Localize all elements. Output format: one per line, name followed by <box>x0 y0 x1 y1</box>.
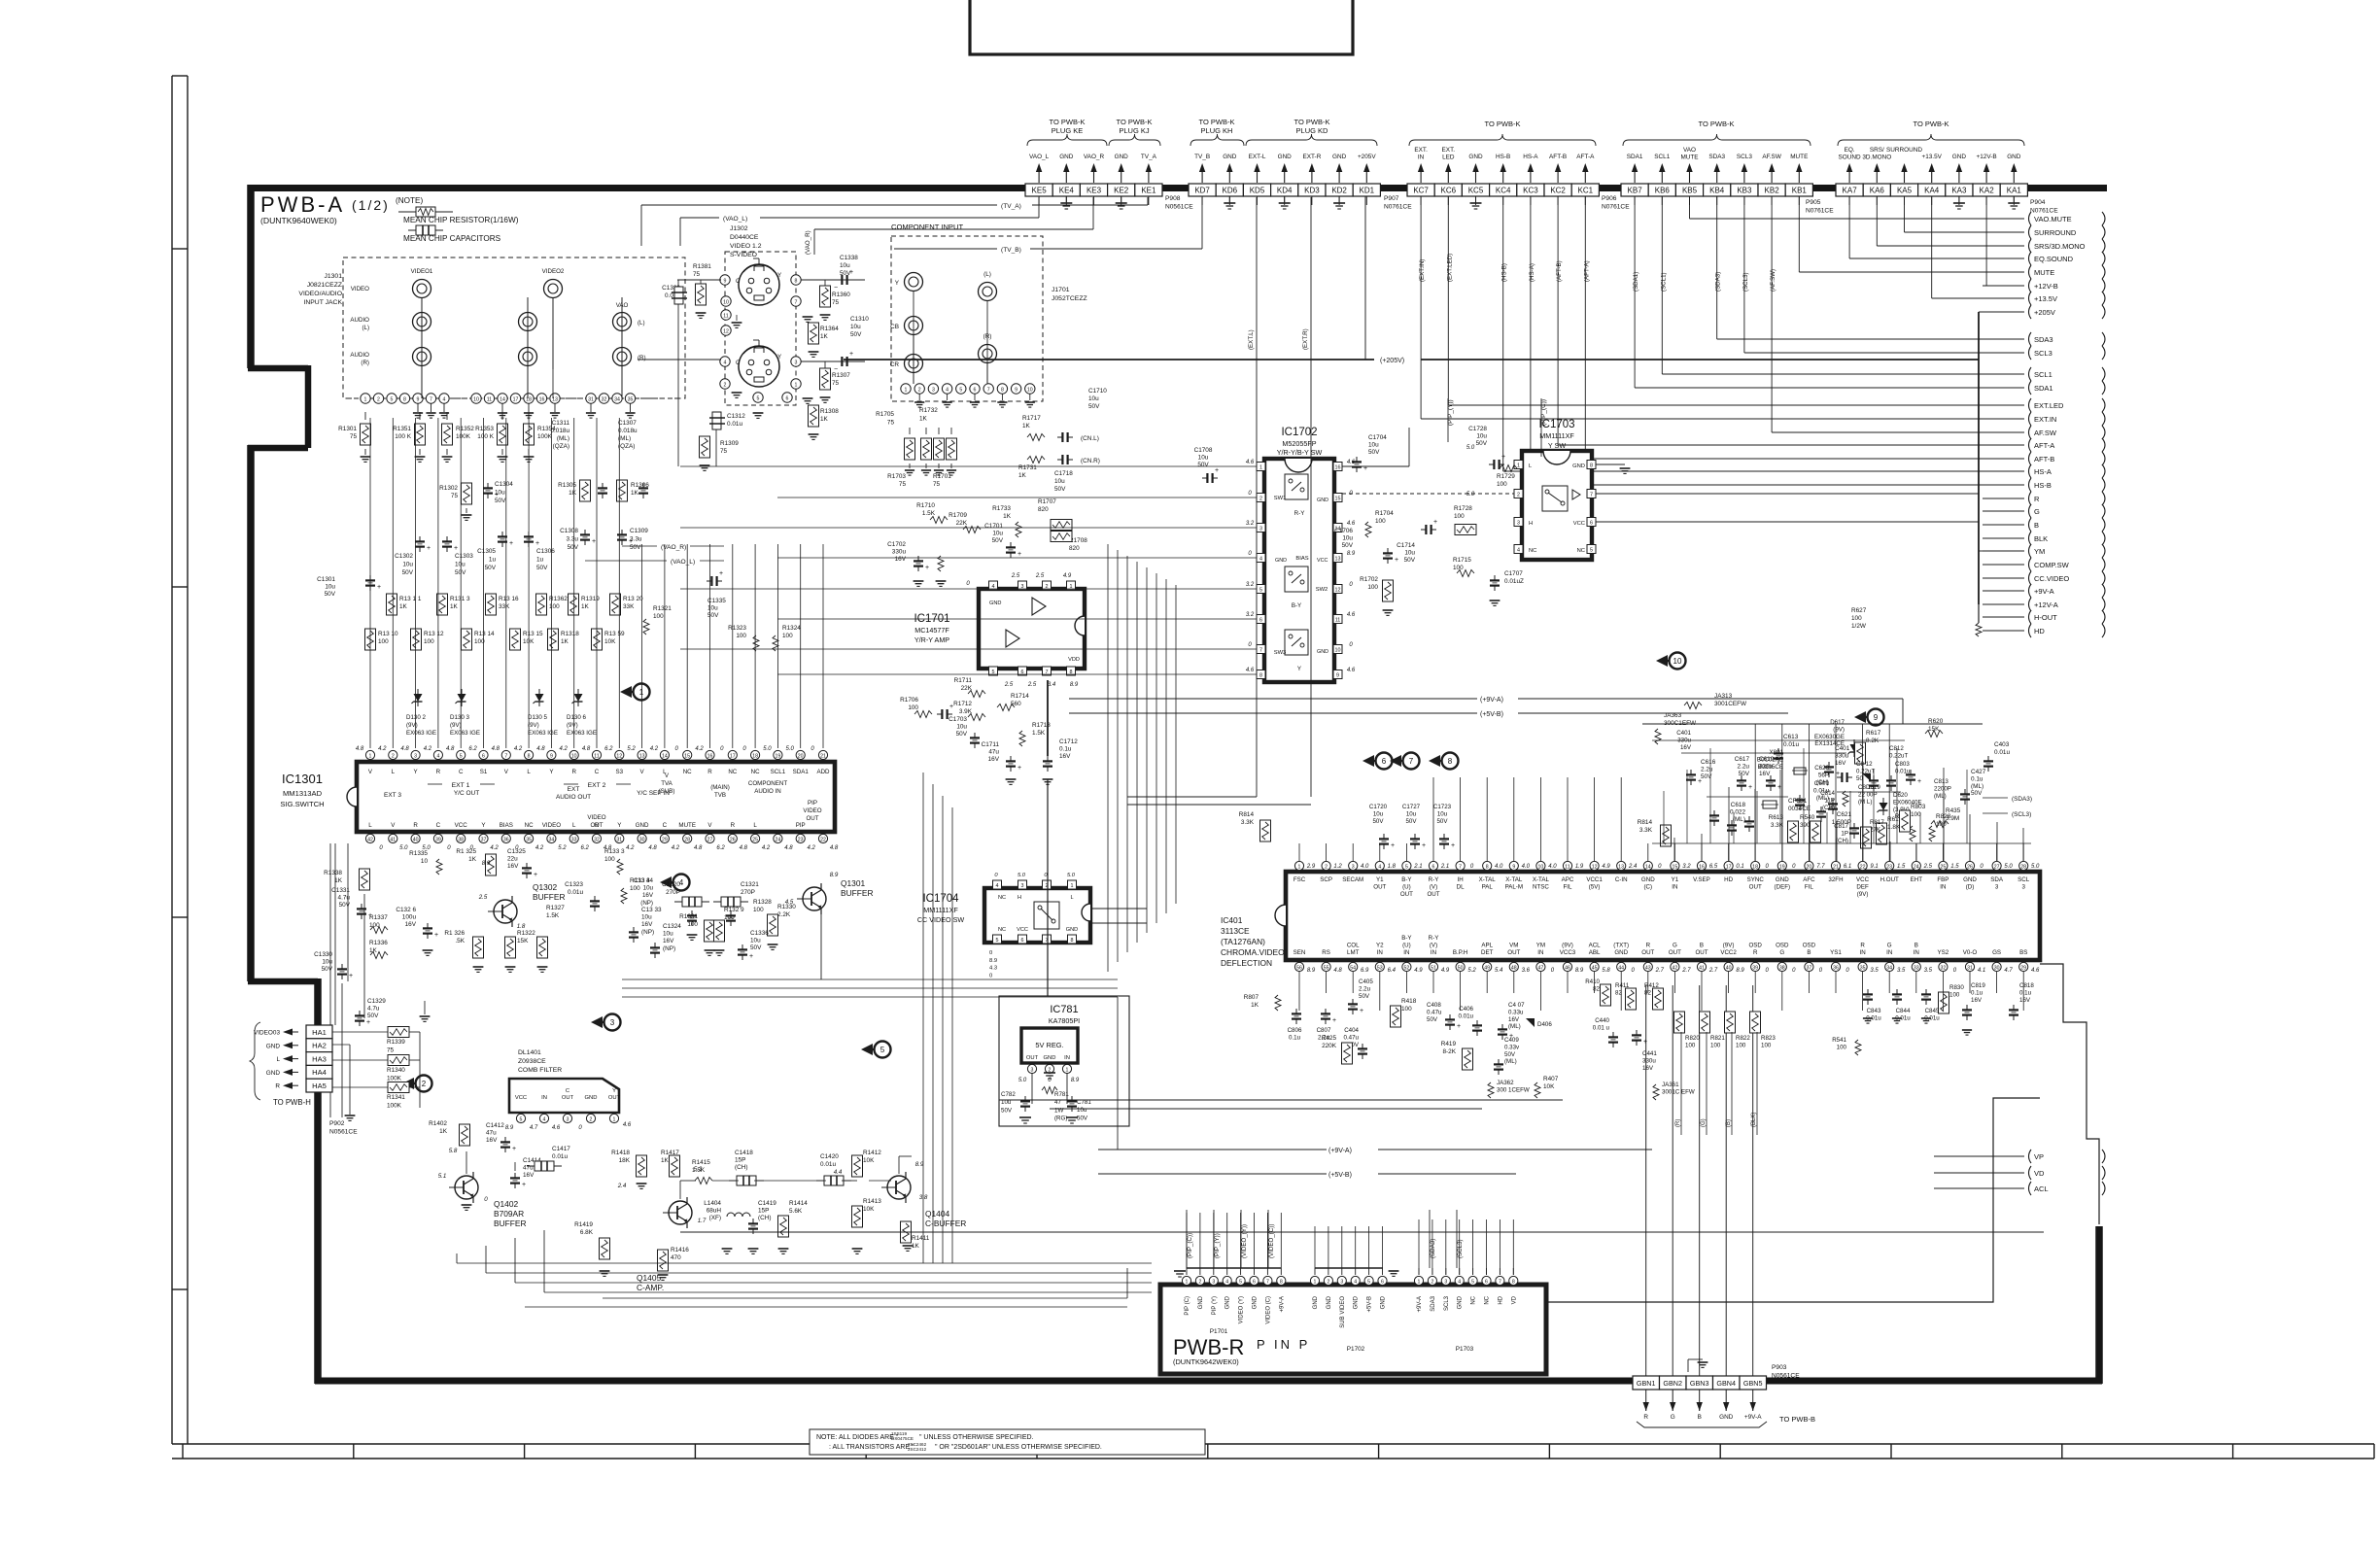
svg-text:C1312: C1312 <box>727 413 745 420</box>
svg-text:R823: R823 <box>1761 1035 1776 1042</box>
svg-text:EX063 IGE: EX063 IGE <box>406 730 436 737</box>
svg-text:COMPONENT INPUT: COMPONENT INPUT <box>891 223 963 231</box>
svg-text:AUDIO IN: AUDIO IN <box>754 788 781 795</box>
svg-text:16V: 16V <box>523 1172 535 1179</box>
svg-text:VAO_L: VAO_L <box>1029 154 1050 160</box>
svg-text:1: 1 <box>795 382 798 388</box>
svg-text:SURROUND: SURROUND <box>2034 228 2077 237</box>
svg-text:R1728: R1728 <box>1454 505 1472 512</box>
svg-text:10u: 10u <box>1198 455 1209 462</box>
svg-text:8.9: 8.9 <box>505 1125 514 1131</box>
svg-text:2.5: 2.5 <box>1004 682 1014 688</box>
svg-text:(+9V-A): (+9V-A) <box>1480 697 1503 704</box>
svg-text:1.5K: 1.5K <box>922 510 936 517</box>
svg-text:820: 820 <box>1038 506 1049 513</box>
svg-text:TV_B: TV_B <box>1194 154 1210 160</box>
svg-text:4.1: 4.1 <box>1978 968 1985 974</box>
svg-text:R1360: R1360 <box>832 292 850 298</box>
svg-text:COMP.SW: COMP.SW <box>2034 561 2070 569</box>
svg-text:AFT-A: AFT-A <box>1576 154 1595 160</box>
svg-text:75: 75 <box>832 380 840 387</box>
svg-text:4.2: 4.2 <box>535 845 544 851</box>
svg-text:R820: R820 <box>1685 1035 1700 1042</box>
svg-text:40: 40 <box>1726 966 1732 972</box>
svg-text:VIDEO03: VIDEO03 <box>254 1030 280 1037</box>
svg-text:EXT-L: EXT-L <box>1249 154 1266 160</box>
svg-text:23: 23 <box>1886 865 1892 871</box>
svg-text:GND: GND <box>1198 1295 1204 1309</box>
svg-text:VAO: VAO <box>1683 147 1696 154</box>
svg-text:12: 12 <box>616 753 622 759</box>
svg-text:8: 8 <box>1001 387 1004 393</box>
svg-text:R1702: R1702 <box>1360 576 1378 583</box>
svg-text:(SDA3): (SDA3) <box>1430 1239 1436 1258</box>
svg-text:+: + <box>1451 842 1455 849</box>
svg-text:75: 75 <box>832 299 840 306</box>
svg-text:16V: 16V <box>988 756 1000 763</box>
svg-text:Y/R-Y/B-Y SW: Y/R-Y/B-Y SW <box>1277 448 1323 457</box>
svg-text:VCC: VCC <box>515 1095 527 1101</box>
svg-text:7: 7 <box>1459 865 1462 871</box>
svg-text:D130 2: D130 2 <box>406 714 427 721</box>
svg-text:2.5: 2.5 <box>478 894 488 901</box>
svg-text:(+5V-B): (+5V-B) <box>1480 711 1503 718</box>
svg-text:C1338: C1338 <box>840 255 858 261</box>
svg-text:8.9: 8.9 <box>915 1161 924 1168</box>
svg-text:1.5K: 1.5K <box>1032 730 1046 737</box>
svg-text:+9V-A: +9V-A <box>2034 587 2054 596</box>
svg-text:GND: GND <box>1066 927 1078 933</box>
svg-text:R1701: R1701 <box>933 473 951 480</box>
svg-text:(L): (L) <box>983 271 991 278</box>
svg-text:R131 3: R131 3 <box>450 596 470 602</box>
svg-text:SDA3: SDA3 <box>1431 1295 1436 1311</box>
svg-text:(CN.R): (CN.R) <box>1081 458 1100 464</box>
svg-text:300C1EFW: 300C1EFW <box>1664 720 1697 727</box>
svg-text:50V: 50V <box>325 591 336 598</box>
svg-text:100: 100 <box>724 914 735 921</box>
svg-text:30: 30 <box>1994 966 2000 972</box>
svg-text:VDD: VDD <box>1068 657 1080 663</box>
svg-text:1: 1 <box>369 753 372 759</box>
svg-text:SW2: SW2 <box>1316 587 1328 593</box>
svg-text:C1311: C1311 <box>552 420 570 427</box>
svg-text:2: 2 <box>1327 1279 1329 1285</box>
svg-text:TO PWB-K: TO PWB-K <box>1699 120 1735 128</box>
svg-text:10: 10 <box>723 299 729 305</box>
svg-text:3: 3 <box>567 1116 569 1122</box>
svg-text:4: 4 <box>436 753 439 759</box>
svg-text:15: 15 <box>684 753 690 759</box>
svg-text:16V: 16V <box>895 556 907 563</box>
svg-text:C403: C403 <box>1994 741 2010 748</box>
svg-text:4.3: 4.3 <box>989 966 997 972</box>
svg-text:+: + <box>849 351 853 358</box>
svg-text:2.2u: 2.2u <box>1701 767 1713 773</box>
svg-text:3: 3 <box>1021 883 1024 889</box>
svg-text:0.1u: 0.1u <box>1289 1034 1301 1041</box>
svg-text:(SCL3): (SCL3) <box>1457 1239 1464 1258</box>
svg-text:1: 1 <box>1517 463 1520 469</box>
svg-text:5: 5 <box>880 1046 885 1054</box>
svg-text:GS: GS <box>1992 949 2001 956</box>
svg-text:(L): (L) <box>638 320 645 326</box>
svg-text:100: 100 <box>1911 811 1921 818</box>
svg-text:M52055FP: M52055FP <box>1282 439 1316 448</box>
svg-text:C132 6: C132 6 <box>396 907 416 913</box>
svg-text:50V: 50V <box>1404 557 1416 564</box>
svg-text:1: 1 <box>613 1116 616 1122</box>
svg-text:(D): (D) <box>1966 884 1975 891</box>
svg-text:(U): (U) <box>1402 884 1411 891</box>
svg-text:R13 15: R13 15 <box>523 631 543 637</box>
svg-text:AUDIO: AUDIO <box>350 352 369 359</box>
svg-text:KE2: KE2 <box>1114 187 1129 195</box>
svg-text:34: 34 <box>614 396 620 402</box>
svg-text:(PIP_(Y)): (PIP_(Y)) <box>1214 1233 1221 1258</box>
svg-text:DL1401: DL1401 <box>518 1049 541 1056</box>
svg-text:R1381: R1381 <box>693 263 711 270</box>
svg-text:4.6: 4.6 <box>1347 612 1356 618</box>
svg-text:3.2: 3.2 <box>1682 864 1691 870</box>
svg-text:1K: 1K <box>439 1128 448 1135</box>
svg-text:16V: 16V <box>1835 760 1846 767</box>
svg-text:40: 40 <box>413 837 419 842</box>
svg-text:36: 36 <box>503 837 509 842</box>
svg-text:PAL-M: PAL-M <box>1505 884 1523 891</box>
svg-text:48: 48 <box>1511 966 1517 972</box>
svg-text:R1324: R1324 <box>782 625 801 632</box>
svg-text:25: 25 <box>752 837 758 842</box>
svg-text:Y: Y <box>1297 666 1301 672</box>
svg-text:6: 6 <box>1485 1279 1488 1285</box>
svg-text:5: 5 <box>1259 588 1262 594</box>
svg-text:8: 8 <box>1512 1279 1515 1285</box>
svg-text:16V: 16V <box>1971 997 1983 1004</box>
svg-text:KA3: KA3 <box>1951 187 1967 195</box>
svg-text:4.8: 4.8 <box>400 746 409 752</box>
svg-text:IN: IN <box>1418 154 1425 161</box>
svg-text:5.0: 5.0 <box>2031 864 2040 870</box>
svg-text:1.5: 1.5 <box>1950 864 1959 870</box>
svg-text:(TXT): (TXT) <box>1613 943 1629 949</box>
svg-text:560: 560 <box>1011 701 1021 707</box>
svg-text:HA1: HA1 <box>312 1028 327 1037</box>
svg-text:32: 32 <box>1941 966 1947 972</box>
svg-text:1K: 1K <box>1251 1002 1259 1009</box>
svg-text:1.9: 1.9 <box>1575 864 1584 870</box>
svg-text:14: 14 <box>662 753 668 759</box>
svg-text:B-Y: B-Y <box>1401 876 1411 883</box>
svg-text:(CN.L): (CN.L) <box>1081 435 1099 442</box>
svg-text:C1308: C1308 <box>560 528 578 534</box>
svg-text:KB4: KB4 <box>1709 187 1725 195</box>
svg-text:CHROMA.VIDEO: CHROMA.VIDEO <box>1221 947 1285 957</box>
svg-text:C1714: C1714 <box>1397 542 1415 549</box>
svg-text:2.9: 2.9 <box>1306 864 1316 870</box>
svg-text:TO PWB-K: TO PWB-K <box>1294 118 1330 126</box>
svg-text:4.8: 4.8 <box>830 845 839 851</box>
svg-text:2.1: 2.1 <box>1440 864 1449 870</box>
svg-text:C406: C406 <box>1459 1006 1473 1013</box>
svg-text:1K: 1K <box>561 638 569 645</box>
svg-text:18K: 18K <box>619 1157 631 1164</box>
svg-text:(ML): (ML) <box>618 435 631 442</box>
svg-text:R1301: R1301 <box>338 426 357 432</box>
svg-text:MUTE: MUTE <box>2034 268 2054 277</box>
svg-text:C1704: C1704 <box>1368 434 1387 441</box>
svg-text:R13 10: R13 10 <box>378 631 398 637</box>
svg-text:4.9: 4.9 <box>1602 864 1610 870</box>
svg-text:(+5V-B): (+5V-B) <box>1328 1172 1352 1179</box>
svg-text:1: 1 <box>1418 1279 1421 1285</box>
svg-text:X-TAL: X-TAL <box>1533 876 1550 883</box>
svg-text:OUT: OUT <box>1400 891 1413 898</box>
svg-text:R807: R807 <box>1244 994 1259 1001</box>
svg-text:6.1: 6.1 <box>1844 864 1851 870</box>
svg-text:R1729: R1729 <box>1497 473 1515 480</box>
svg-text:+: + <box>434 932 438 939</box>
svg-text:(ML): (ML) <box>1733 816 1745 823</box>
svg-text:10u: 10u <box>1088 395 1099 402</box>
svg-text:54: 54 <box>1350 966 1356 972</box>
svg-text:37: 37 <box>1807 966 1812 972</box>
svg-text:75: 75 <box>451 493 459 499</box>
svg-text:4.0: 4.0 <box>1522 864 1531 870</box>
svg-text:DEFLECTION: DEFLECTION <box>1221 958 1272 968</box>
svg-text:8.2K: 8.2K <box>1866 738 1880 744</box>
svg-text:YS2: YS2 <box>1938 949 1949 956</box>
svg-text:50V: 50V <box>1368 449 1380 456</box>
svg-text:G: G <box>1673 943 1677 949</box>
svg-text:47u: 47u <box>486 1130 497 1137</box>
svg-text:PLUG KJ: PLUG KJ <box>1119 126 1150 135</box>
svg-text:+: + <box>1360 1008 1363 1014</box>
svg-text:B-Y: B-Y <box>1401 935 1411 942</box>
svg-text:22: 22 <box>820 837 826 842</box>
svg-text:Y1: Y1 <box>1672 876 1679 883</box>
svg-text:C1708: C1708 <box>1194 447 1213 454</box>
svg-text:C1307: C1307 <box>618 420 637 427</box>
svg-text:3D.MONO: 3D.MONO <box>1862 154 1891 161</box>
svg-text:0.01u: 0.01u <box>552 1153 568 1160</box>
svg-text:HA5: HA5 <box>312 1081 327 1090</box>
svg-text:8: 8 <box>795 278 798 284</box>
svg-text:VIDEO: VIDEO <box>803 807 821 814</box>
svg-text:R: R <box>731 822 736 829</box>
svg-text:IN: IN <box>1064 1055 1070 1061</box>
svg-text:52: 52 <box>1404 966 1410 972</box>
svg-text:4: 4 <box>724 360 727 365</box>
svg-text:16V: 16V <box>1059 753 1071 760</box>
svg-text:+: + <box>427 545 431 552</box>
svg-text:50V: 50V <box>485 565 497 571</box>
svg-text:GBN1: GBN1 <box>1637 1379 1656 1388</box>
svg-text:100K: 100K <box>456 433 471 440</box>
svg-text:J052TCEZZ: J052TCEZZ <box>1052 295 1087 302</box>
svg-text:+: + <box>949 704 953 710</box>
svg-text:8: 8 <box>1590 463 1593 469</box>
svg-text:34: 34 <box>549 837 555 842</box>
svg-text:15P: 15P <box>735 1157 745 1164</box>
svg-text:VP: VP <box>2034 1152 2044 1161</box>
svg-text:+: + <box>377 584 381 591</box>
svg-text:10u: 10u <box>840 262 850 269</box>
svg-text:R1402: R1402 <box>429 1120 447 1127</box>
svg-text:2: 2 <box>724 382 727 388</box>
svg-text:0.01 u: 0.01 u <box>1593 1024 1610 1031</box>
svg-text:C844: C844 <box>1896 1008 1911 1014</box>
svg-text:EX063 IGE: EX063 IGE <box>567 730 597 737</box>
svg-text:R1352: R1352 <box>456 426 474 432</box>
svg-text:OUT: OUT <box>1695 949 1707 956</box>
svg-text:EXT-R: EXT-R <box>1302 154 1321 160</box>
svg-text:R1412: R1412 <box>863 1150 881 1156</box>
svg-text:GND: GND <box>1278 154 1293 160</box>
svg-text:3.5: 3.5 <box>1924 968 1933 974</box>
svg-text:R13 14: R13 14 <box>474 631 495 637</box>
svg-text:31: 31 <box>616 837 622 842</box>
svg-text:DEF: DEF <box>1856 884 1869 891</box>
svg-text:(NP): (NP) <box>640 900 653 907</box>
svg-text:(QZA): (QZA) <box>618 443 635 450</box>
svg-text:3113CE: 3113CE <box>1221 926 1250 936</box>
svg-text:1.8: 1.8 <box>517 923 526 930</box>
svg-text:PWB-R: PWB-R <box>1173 1335 1244 1359</box>
svg-text:R541: R541 <box>1832 1037 1846 1044</box>
svg-text:SRS/3D.MONO: SRS/3D.MONO <box>2034 242 2086 251</box>
svg-text:TO PWB-K: TO PWB-K <box>1914 120 1949 128</box>
svg-text:10u: 10u <box>663 931 673 938</box>
svg-text:+13.5V: +13.5V <box>2034 294 2057 303</box>
svg-text:13: 13 <box>1618 865 1624 871</box>
svg-text:NC: NC <box>1471 1295 1477 1304</box>
svg-text:DET: DET <box>1481 949 1494 956</box>
svg-text:MM1111XF: MM1111XF <box>923 906 958 914</box>
svg-text:4.2: 4.2 <box>514 746 523 752</box>
svg-text:VCC3: VCC3 <box>1560 949 1576 956</box>
svg-text:10u: 10u <box>1342 535 1353 542</box>
svg-text:NC: NC <box>728 769 737 775</box>
svg-text:OUT: OUT <box>562 1095 574 1101</box>
svg-text:C1303: C1303 <box>455 553 473 560</box>
svg-text:1u: 1u <box>489 556 497 563</box>
svg-text:Y/R-Y AMP: Y/R-Y AMP <box>914 635 949 644</box>
svg-text:R407: R407 <box>1543 1076 1559 1082</box>
svg-text:GND: GND <box>1115 154 1129 160</box>
svg-text:GND: GND <box>636 822 649 829</box>
svg-text:IN: IN <box>1672 884 1677 891</box>
svg-text:FSC: FSC <box>1293 876 1306 883</box>
svg-text:2.1: 2.1 <box>1413 864 1422 870</box>
svg-text:L: L <box>527 769 531 775</box>
svg-text:820: 820 <box>1069 545 1080 552</box>
svg-text:0.1u: 0.1u <box>2019 989 2032 996</box>
svg-text:C1702: C1702 <box>887 541 906 548</box>
svg-text:PAL: PAL <box>1482 884 1494 891</box>
svg-text:100: 100 <box>736 633 746 639</box>
svg-text:OUT: OUT <box>1507 949 1520 956</box>
svg-text:HD: HD <box>2034 627 2045 635</box>
svg-text:KA7805PI: KA7805PI <box>1049 1016 1080 1025</box>
svg-text:C1701: C1701 <box>984 523 1003 530</box>
svg-text:10u: 10u <box>322 959 332 966</box>
svg-text:+: + <box>749 953 753 960</box>
svg-text:0.22uT: 0.22uT <box>1889 752 1908 759</box>
svg-text:C4 07: C4 07 <box>1508 1002 1525 1009</box>
svg-text:C1420: C1420 <box>820 1153 839 1160</box>
svg-text:R1706: R1706 <box>900 697 918 704</box>
svg-text:21: 21 <box>820 753 826 759</box>
svg-text:R1351: R1351 <box>393 426 411 432</box>
svg-text:SCL3: SCL3 <box>2034 349 2052 358</box>
svg-text:2.7: 2.7 <box>1708 968 1718 974</box>
svg-text:(XF): (XF) <box>709 1215 721 1221</box>
svg-text:5.8: 5.8 <box>449 1148 458 1154</box>
svg-text:(CH): (CH) <box>1816 779 1829 786</box>
svg-text:3: 3 <box>1995 884 1999 891</box>
svg-text:KD6: KD6 <box>1223 187 1238 195</box>
svg-text:HS-B: HS-B <box>1496 154 1510 160</box>
svg-text:1K: 1K <box>399 603 408 610</box>
svg-text:2.2u: 2.2u <box>1738 764 1750 771</box>
svg-text:(AFT-A): (AFT-A) <box>1583 260 1590 282</box>
svg-text:4.2: 4.2 <box>490 845 499 851</box>
svg-text:10: 10 <box>473 396 479 402</box>
svg-text:NTSC: NTSC <box>1533 884 1549 891</box>
svg-text:(V): (V) <box>1430 884 1437 891</box>
svg-text:GBN3: GBN3 <box>1690 1379 1709 1388</box>
svg-text:G: G <box>1887 943 1892 949</box>
svg-text:41: 41 <box>1699 966 1705 972</box>
svg-text:5: 5 <box>1367 1279 1370 1285</box>
svg-text:9: 9 <box>1015 387 1018 393</box>
svg-text:EXT 2: EXT 2 <box>588 782 606 789</box>
svg-text:10K: 10K <box>863 1157 875 1164</box>
svg-text:(R): (R) <box>361 360 369 366</box>
svg-text:4.8: 4.8 <box>492 746 500 752</box>
svg-text:3: 3 <box>932 387 935 393</box>
svg-text:COMB FILTER: COMB FILTER <box>518 1067 562 1074</box>
svg-text:6: 6 <box>482 753 485 759</box>
svg-text:C-IN: C-IN <box>1615 876 1628 883</box>
svg-text:OUT: OUT <box>1026 1055 1039 1061</box>
svg-text:FIL: FIL <box>1805 884 1813 891</box>
svg-text:330u: 330u <box>1835 753 1849 760</box>
svg-text:7: 7 <box>430 396 432 402</box>
svg-text:D620: D620 <box>1893 792 1908 799</box>
svg-text:4.8: 4.8 <box>582 746 591 752</box>
svg-text:L1404: L1404 <box>704 1200 721 1207</box>
svg-text:SYNC: SYNC <box>1747 876 1765 883</box>
svg-text:300 1CEFW: 300 1CEFW <box>1497 1086 1530 1093</box>
svg-text:C819: C819 <box>1971 982 1985 989</box>
svg-text:15K: 15K <box>517 938 529 944</box>
svg-text:(SCL3): (SCL3) <box>1742 272 1749 292</box>
svg-text:EXT.IN: EXT.IN <box>2034 415 2056 424</box>
svg-text:0: 0 <box>989 973 992 978</box>
svg-text:8.9: 8.9 <box>830 872 839 878</box>
svg-text:MM1313AD: MM1313AD <box>283 789 323 798</box>
svg-text:6.2: 6.2 <box>581 845 590 851</box>
svg-text:R1 326: R1 326 <box>444 930 465 937</box>
svg-text:33: 33 <box>571 837 577 842</box>
svg-text:10u: 10u <box>992 531 1003 537</box>
svg-text:6: 6 <box>1253 1279 1256 1285</box>
svg-text:6: 6 <box>1432 865 1435 871</box>
svg-text:H: H <box>1529 521 1533 527</box>
svg-text:KC7: KC7 <box>1413 187 1429 195</box>
